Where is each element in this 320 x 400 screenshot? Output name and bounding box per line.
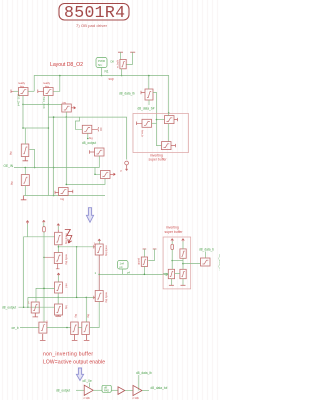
port arrow x27.5 xyxy=(26,221,29,225)
wire input long vert xyxy=(24,237,55,307)
wire port stem xyxy=(171,242,173,270)
faint background striping xyxy=(3,0,218,400)
svg-text:S33_2n4: S33_2n4 xyxy=(17,94,21,106)
super buffer 1 boundary xyxy=(133,114,189,153)
pin MB gate stub xyxy=(45,256,55,258)
wire OE rail xyxy=(14,167,100,169)
wire x86 down to MG2 xyxy=(85,297,87,322)
svg-text:d8_output: d8_output xyxy=(2,306,16,310)
transistor M6 xyxy=(95,148,105,156)
title block 8501R4 xyxy=(59,3,129,22)
transistor M1 really big xyxy=(19,88,29,96)
wire MT bottom stub xyxy=(148,100,150,105)
svg-text:N1: N1 xyxy=(98,63,102,67)
wire G3 out xyxy=(142,390,149,392)
pin M8 out arrow xyxy=(110,173,115,175)
wire ME-MF stem (red) xyxy=(98,255,100,291)
transistor MH xyxy=(39,322,47,333)
pin MT gate tick xyxy=(141,91,145,94)
wire MH to MG1 xyxy=(47,327,71,329)
super buffer 2 boundary xyxy=(163,237,191,289)
wire label box stem xyxy=(121,269,123,274)
wire SK top stem xyxy=(182,242,184,249)
transistor M3 inverter xyxy=(62,104,72,112)
wire main top rail xyxy=(34,76,169,114)
wire S1 drain xyxy=(152,122,157,124)
wire stub down M1 xyxy=(22,104,24,128)
junction xyxy=(27,306,29,308)
port capsule xyxy=(171,244,174,249)
ground tap MH xyxy=(40,334,46,340)
svg-text:super buffer: super buffer xyxy=(165,230,184,234)
wire enable down xyxy=(89,383,91,388)
wire MC-MD stem xyxy=(57,293,59,304)
port arrow above ME xyxy=(98,239,101,242)
ground tap MI xyxy=(33,313,39,317)
transistor MJ xyxy=(141,257,147,266)
ground tap MG2 xyxy=(84,335,90,341)
wire M6 stem xyxy=(98,156,100,168)
junction xyxy=(121,75,123,77)
wire M1 drain to rail xyxy=(28,90,34,92)
junction xyxy=(86,297,88,299)
wire M5 stem xyxy=(87,134,89,139)
wire x27.9 down xyxy=(27,297,29,307)
junction xyxy=(43,288,45,290)
svg-text:LOW=active output enable: LOW=active output enable xyxy=(43,360,105,366)
wire y128 xyxy=(23,127,48,129)
svg-text:d8_output: d8_output xyxy=(56,389,70,393)
junction xyxy=(98,274,100,276)
wire S1 to S2 gate xyxy=(157,119,165,121)
wire T1 stem xyxy=(120,52,122,59)
junction xyxy=(171,260,173,262)
transistor M5 feedback xyxy=(82,125,92,133)
svg-text:big: big xyxy=(20,84,24,88)
pin M5 out xyxy=(92,127,101,131)
svg-text:PAD: PAD xyxy=(104,389,109,393)
wire G2-G3 xyxy=(125,390,133,392)
pin S2 drain tick xyxy=(174,118,178,121)
junction xyxy=(53,195,55,197)
svg-text:really big: really big xyxy=(105,246,109,257)
wire S2 to S3 xyxy=(168,124,170,142)
wire MT top stem xyxy=(148,76,150,90)
pin S1 gate tick xyxy=(137,122,143,126)
pin M7 drain tick xyxy=(68,190,73,193)
junction xyxy=(57,297,59,299)
svg-text:super buffer: super buffer xyxy=(149,158,168,162)
svg-text:d8_data_b: d8_data_b xyxy=(199,248,214,252)
wire y195 rail xyxy=(24,195,105,197)
wire M5 loop xyxy=(75,117,82,129)
wire PWR box stem xyxy=(101,68,103,76)
svg-text:big: big xyxy=(61,197,65,201)
wire vert x53.6 xyxy=(53,117,55,195)
supply tap T1 xyxy=(118,51,123,53)
ground tap SM xyxy=(181,284,186,286)
svg-text:d8_data_lb: d8_data_lb xyxy=(136,371,152,375)
wire node A horizontal xyxy=(23,103,62,105)
svg-text:big: big xyxy=(74,314,78,318)
port arrow up 1 xyxy=(171,239,174,242)
junction xyxy=(76,297,78,299)
svg-text:big: big xyxy=(89,136,93,140)
wire enable chain x44 xyxy=(43,223,45,323)
transistor MC xyxy=(55,282,63,293)
wire M2 drain up to rail xyxy=(53,76,60,92)
transistor MG1 xyxy=(71,322,79,335)
svg-text:rr13b: rr13b xyxy=(133,396,140,400)
transistor M4 xyxy=(21,144,29,157)
svg-text:d8_data_b#: d8_data_b# xyxy=(218,254,220,271)
svg-text:rr13b: rr13b xyxy=(84,396,91,400)
transistor SK xyxy=(180,249,186,258)
svg-text:S33_2n4: S33_2n4 xyxy=(42,97,46,109)
wire MA top stem xyxy=(57,226,59,229)
svg-text:d8_output: d8_output xyxy=(82,141,96,145)
wire M1 source stem xyxy=(22,96,24,105)
wire M8 gate xyxy=(95,168,101,175)
junction xyxy=(58,246,60,248)
ground tap xyxy=(21,196,27,200)
wire vert x66 down xyxy=(65,117,67,184)
svg-text:inverting: inverting xyxy=(166,226,179,230)
wire G1 out xyxy=(93,389,102,391)
wire oe_b xyxy=(20,327,39,329)
junction xyxy=(66,116,68,118)
svg-text:w_bulk: w_bulk xyxy=(116,59,120,68)
ground tap MG1 xyxy=(72,335,78,341)
pad transistor MP xyxy=(201,258,211,266)
wire S2 top xyxy=(168,113,170,116)
svg-text:D8: D8 xyxy=(111,60,115,64)
wire MF bottom xyxy=(90,302,99,328)
svg-text:really big: really big xyxy=(65,254,69,265)
junction xyxy=(53,167,55,169)
pin MF gate tick xyxy=(94,296,95,299)
svg-text:oE_0e: oE_0e xyxy=(83,379,92,383)
wire loop M8 xyxy=(66,179,105,185)
ground tap MD xyxy=(55,315,61,316)
port arrow x44 xyxy=(43,220,46,222)
wire TJ2 stem xyxy=(148,249,154,260)
svg-text:mid: mid xyxy=(65,284,69,289)
OE port circle xyxy=(125,161,129,170)
transistor M8 xyxy=(101,171,111,179)
port arrow up 2 xyxy=(182,239,185,242)
wire MJ stem xyxy=(143,266,145,274)
svg-text:big: big xyxy=(45,84,49,88)
junction xyxy=(34,167,36,169)
wire MC top stem xyxy=(58,276,60,283)
svg-text:big: big xyxy=(65,306,69,310)
svg-text:big: big xyxy=(9,151,13,155)
junction xyxy=(144,274,146,276)
transistor S1 xyxy=(142,119,152,127)
wire port to SK stem xyxy=(172,260,183,262)
junction xyxy=(48,127,50,129)
pin M6 gate tick xyxy=(90,150,95,153)
svg-text:inv: inv xyxy=(63,101,67,105)
wire MI drain up xyxy=(36,288,55,302)
wire pad to G2 xyxy=(111,389,118,391)
transistor MT xyxy=(145,89,153,100)
junction xyxy=(168,112,170,114)
junction xyxy=(43,257,45,259)
wire SL tap stem xyxy=(170,279,172,285)
transistor S3 xyxy=(162,142,172,150)
transistor MA xyxy=(55,232,63,245)
wire mid rail xyxy=(48,117,126,159)
wire MG1-MG2 xyxy=(78,327,82,329)
pin S3 drain tick xyxy=(171,144,176,147)
wire SK to SM xyxy=(182,258,184,269)
wire TJ1 stem xyxy=(143,249,145,257)
wire pad top stem xyxy=(205,252,207,259)
supply tap TJ1 xyxy=(143,248,147,250)
junction xyxy=(182,263,184,265)
pin MA top stub xyxy=(57,230,59,233)
ground tap SL xyxy=(169,284,174,286)
wire d8_output rail xyxy=(19,306,55,308)
transistor MF xyxy=(95,291,103,302)
wire SL-SM gate link xyxy=(175,273,180,275)
junction xyxy=(101,75,103,77)
wire M1 gate xyxy=(14,90,19,92)
wire y297 xyxy=(28,296,94,298)
port capsule x44 xyxy=(43,227,46,233)
svg-text:oe_b: oe_b xyxy=(12,326,19,330)
wire M9 bottom stem xyxy=(24,186,26,196)
junction xyxy=(59,75,61,77)
junction xyxy=(76,246,78,248)
transistor SL xyxy=(168,269,174,278)
svg-text:d8_data_b#: d8_data_b# xyxy=(138,107,155,111)
transistor ME xyxy=(95,244,103,255)
wire M4 top stem xyxy=(24,128,26,144)
wire arrow stem x27.5 xyxy=(27,224,29,237)
junction xyxy=(66,327,68,329)
svg-text:7) OB pad driver: 7) OB pad driver xyxy=(76,23,108,28)
wire MPWR drain stem xyxy=(121,69,123,76)
port arrow above MA xyxy=(57,224,60,227)
svg-text:big: big xyxy=(10,181,14,185)
blue arrow 1 xyxy=(86,208,93,223)
wire y274 rail xyxy=(99,273,168,276)
transistor MB xyxy=(54,253,62,264)
pin MB source stub tick xyxy=(56,264,60,269)
junction xyxy=(22,104,24,106)
wire gate1 input xyxy=(76,389,84,391)
svg-text:N1: N1 xyxy=(105,70,109,74)
wire ME top stem xyxy=(98,242,100,245)
wire y246 xyxy=(58,246,93,248)
wire MA-MB stem xyxy=(57,245,59,253)
wire stub down M2 xyxy=(47,104,49,195)
wire SL gate from rail xyxy=(163,273,168,275)
svg-text:really big: really big xyxy=(105,292,109,303)
wire d8_data_lb stem xyxy=(138,375,140,391)
power label box PWR/N1 xyxy=(96,58,107,68)
net label box N4 xyxy=(118,261,129,270)
svg-text:pwrdn: pwrdn xyxy=(137,258,141,266)
pad label box xyxy=(102,385,111,392)
transistor MG2 xyxy=(82,322,90,335)
pin ME gate tick xyxy=(94,245,95,248)
svg-text:Layout D8_O2: Layout D8_O2 xyxy=(50,62,83,68)
wire M4 drain right xyxy=(29,150,34,168)
junction xyxy=(66,184,68,186)
junction xyxy=(43,288,45,290)
wire out to pad xyxy=(183,263,201,265)
junction xyxy=(25,167,27,169)
transistor M2 really big xyxy=(44,88,54,96)
junction xyxy=(94,174,96,176)
junction xyxy=(148,75,150,77)
transistor M7 xyxy=(59,188,69,196)
wire T2 stem xyxy=(126,52,132,64)
svg-text:non_inverting buffer: non_inverting buffer xyxy=(43,352,93,358)
pin M3 out arrow xyxy=(71,107,75,109)
junction xyxy=(156,119,158,121)
svg-text:low_b: low_b xyxy=(141,130,145,137)
pin M2 gate tick xyxy=(38,90,44,94)
svg-text:d8_data_b#: d8_data_b# xyxy=(151,386,168,390)
transistor S2 xyxy=(165,116,175,124)
tristate buffer G1 xyxy=(84,385,93,395)
svg-text:8501R4: 8501R4 xyxy=(64,3,125,22)
svg-text:d8_data_lb: d8_data_lb xyxy=(119,92,135,96)
wire M2 source stem xyxy=(47,96,49,105)
transistor SM xyxy=(180,269,186,278)
junction xyxy=(53,116,55,118)
junction xyxy=(23,306,25,308)
svg-text:sup: sup xyxy=(109,77,114,81)
transistor MD xyxy=(55,304,63,315)
junction xyxy=(48,104,50,106)
supply tap TJ2 xyxy=(153,248,157,250)
wire M9 top stem xyxy=(24,168,26,175)
wire x77 down xyxy=(76,247,78,298)
port arrow above MC xyxy=(57,273,60,276)
transistor M9 xyxy=(21,175,29,186)
pin M7 gate tick xyxy=(55,191,59,194)
buffer G3 xyxy=(133,385,142,395)
junction xyxy=(22,127,24,129)
svg-text:OE_IN: OE_IN xyxy=(4,164,14,168)
bulk tap M4 xyxy=(23,157,29,161)
buffer G2 xyxy=(118,387,125,395)
svg-text:big: big xyxy=(87,314,91,318)
junction xyxy=(87,138,89,140)
wire M3 stem xyxy=(65,112,67,117)
pin M1 gate tick xyxy=(11,90,14,94)
transistor MI xyxy=(31,302,39,313)
wire MT drain down xyxy=(153,93,162,146)
transistor MPWR w_bulk xyxy=(120,59,126,68)
wire SM tap stem xyxy=(182,279,184,285)
blue arrow 2 xyxy=(76,368,83,381)
supply tap T2 xyxy=(130,51,135,53)
ESD lightning xyxy=(65,230,72,244)
